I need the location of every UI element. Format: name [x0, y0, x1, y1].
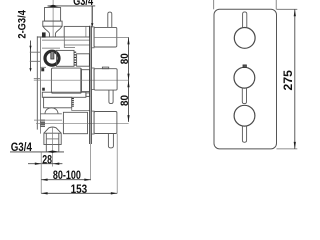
centerline top pipe	[52, 0, 54, 37]
outlet pipe bottom	[46, 133, 59, 151]
cartridge body	[57, 50, 75, 66]
2-G3/4 label	[16, 9, 28, 38]
dimension line 80/80	[128, 37, 130, 122]
collar top	[43, 21, 62, 26]
manifold line upper	[42, 39, 89, 41]
cartridge spline	[74, 52, 76, 65]
text 80 lower	[119, 95, 131, 106]
extension stub above right corner	[275, 0, 277, 9]
body top edge	[37, 36, 64, 38]
central block seam	[80, 68, 82, 93]
bleed screw top	[42, 32, 46, 37]
handle 2 box	[94, 69, 117, 90]
bottom body block	[63, 112, 87, 133]
centerline bottom pipe	[52, 127, 54, 167]
dimension 28 arrows	[46, 151, 52, 153]
seam top connector	[85, 26, 87, 37]
centerline middle	[34, 79, 129, 81]
plate section handle 3	[91, 111, 94, 134]
nub above circle 2	[243, 65, 246, 68]
leader arrow down to body	[91, 6, 93, 24]
manifold step	[64, 37, 89, 48]
extension line 275 bottom	[277, 148, 298, 150]
wall extension line	[90, 144, 92, 180]
leader 2-G3/4	[30, 41, 32, 71]
lever stub above circle 1	[243, 12, 247, 28]
plate section handle 1	[91, 27, 94, 48]
service stop slot	[51, 52, 54, 59]
handle 1 centerline	[94, 36, 129, 38]
extension line left	[40, 152, 42, 193]
outlet centerline short	[34, 119, 62, 121]
lower cartridge	[44, 97, 72, 108]
bleed screw lower-mid	[42, 88, 45, 91]
dome cap	[45, 108, 58, 114]
funnel valley top	[43, 26, 62, 37]
lever stub below circle 3	[242, 126, 246, 142]
extension line 153 right	[116, 134, 118, 194]
svg-text:G3/4: G3/4	[73, 0, 93, 8]
leader shelf G3/4 bottom	[10, 151, 64, 153]
diameter arrows top pipe	[48, 5, 59, 8]
handle circle 3	[234, 105, 255, 126]
svg-text:80: 80	[119, 95, 131, 106]
pipe inner line	[46, 138, 59, 140]
handle circle 1	[234, 28, 255, 49]
stub below handle 2	[109, 90, 113, 104]
lower step	[72, 108, 90, 111]
wall section lines	[90, 26, 92, 144]
inlet boss ticks	[30, 52, 41, 78]
bleed screw mid	[41, 68, 44, 71]
label G3/4 bottom	[11, 140, 32, 154]
dimension line 80-100	[41, 179, 90, 181]
bleed screw bottom stack	[41, 120, 45, 126]
dimension line 153	[41, 192, 117, 194]
text 28	[42, 154, 52, 166]
text 275	[283, 70, 295, 91]
dimension line 275	[294, 9, 296, 149]
text 80-100	[53, 170, 81, 182]
extension line 275 top	[277, 8, 298, 10]
extension stub above left corner	[213, 0, 215, 9]
outlet bar nub	[86, 93, 90, 97]
svg-text:28: 28	[42, 154, 52, 166]
label G3/4 top	[73, 0, 93, 8]
handle 1 box	[94, 27, 117, 47]
text 80 upper	[119, 53, 131, 64]
outlet collar bottom	[44, 133, 61, 144]
stub above handle 1	[108, 12, 112, 27]
svg-text:2-G3/4: 2-G3/4	[16, 9, 28, 38]
handle 3 box	[94, 112, 117, 134]
central body block	[51, 68, 81, 93]
svg-text:153: 153	[71, 184, 88, 196]
line under ring	[40, 66, 46, 68]
plate section handle 2	[91, 68, 94, 89]
body rear inner line	[39, 37, 41, 134]
inlet pipe top	[45, 8, 61, 22]
handle circle 2	[234, 67, 255, 88]
central wall connector	[81, 70, 89, 92]
leader shelf G3/4 top	[48, 5, 96, 7]
lever stub below circle 2	[242, 88, 246, 104]
service stop ring	[45, 51, 59, 65]
dome base line	[40, 113, 61, 115]
cartridge connector	[77, 54, 90, 66]
line above cartridge	[42, 47, 60, 49]
body rear face	[36, 36, 38, 129]
svg-text:80: 80	[119, 53, 131, 64]
dimension line 28	[28, 163, 62, 165]
outlet bar	[42, 92, 86, 97]
funnel peak bottom	[44, 127, 61, 133]
handle 2 nub	[102, 67, 108, 69]
stub below handle 3	[108, 134, 113, 148]
text 153	[71, 184, 88, 196]
top connector box	[64, 26, 89, 37]
svg-text:275: 275	[283, 70, 295, 91]
lower cartridge spline	[72, 99, 74, 107]
trim plate	[214, 9, 277, 149]
centerline bottom handle	[36, 122, 129, 124]
